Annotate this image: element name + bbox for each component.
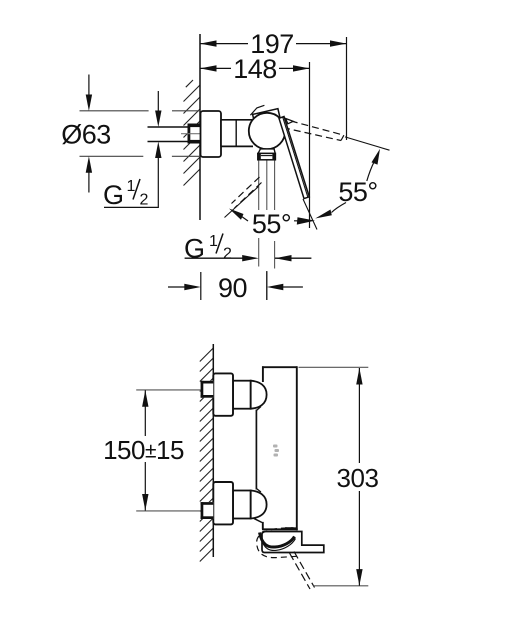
angle 55 upper label [315, 149, 380, 219]
svg-text:G: G [184, 234, 205, 264]
dimension 197 [200, 29, 347, 140]
dashed hose lines [290, 553, 311, 589]
svg-text:2: 2 [140, 192, 149, 209]
cap corner tick [250, 105, 264, 115]
svg-text:2: 2 [223, 246, 232, 263]
top nipple (side view) [201, 381, 214, 398]
dashed holder outline [257, 528, 297, 558]
top escutcheon (side view) [213, 373, 233, 415]
dimension 303 [333, 368, 383, 586]
wall hatching (top view) [184, 80, 201, 186]
body (side view) [256, 366, 297, 530]
wall hatching (side view) [200, 348, 214, 562]
dashed-left centerline [225, 187, 259, 218]
bottom nipple (side view) [201, 502, 214, 519]
dimension 150+-15 extension lines [136, 389, 209, 391]
svg-text:55°: 55° [338, 177, 377, 207]
solid lever centerline extension [303, 199, 317, 230]
svg-text:Ø63: Ø63 [61, 120, 111, 150]
svg-text:150±15: 150±15 [103, 435, 184, 465]
svg-text:90: 90 [218, 273, 247, 303]
dashed lever centerline extension (right) [345, 137, 390, 150]
G1/2 label + dimension (bottom, outlet) [184, 233, 311, 264]
lever head wedge [286, 119, 294, 124]
threaded nipple (top view) [188, 124, 201, 144]
escutcheon (top view) [201, 111, 222, 157]
pipe centerline through nipple [181, 133, 200, 135]
lever (top view) [279, 117, 309, 199]
svg-text:G: G [103, 180, 124, 210]
wall line (top view) [199, 34, 201, 220]
dimension 303 extension lines [299, 366, 369, 368]
lever cap square (rotated, top view) [253, 109, 284, 140]
bottom escutcheon (side view) [213, 482, 233, 524]
outlet extension lines [259, 161, 275, 301]
dimension 148 [200, 54, 310, 228]
dashed lever lowered-left (top view) [232, 177, 262, 208]
GROHE mark [273, 445, 279, 457]
dashed lever raised (top view) [280, 118, 344, 140]
supply pipe (top view) [148, 126, 189, 128]
svg-text:55°: 55° [252, 209, 291, 239]
top union dome [251, 381, 267, 409]
outlet block (top view) [258, 153, 276, 159]
dimension D63 arrows [86, 95, 92, 112]
valve body (top view) [221, 120, 253, 147]
svg-text:1: 1 [209, 233, 218, 250]
dimension 150+-15 [100, 390, 188, 510]
svg-text:148: 148 [233, 54, 277, 84]
svg-text:1: 1 [127, 178, 136, 195]
bottom union dome [251, 491, 267, 519]
shower holder hook [260, 533, 295, 548]
spout assembly (side view) [262, 532, 324, 553]
bottom chamfer [253, 518, 262, 523]
wall line (side view) [212, 344, 214, 557]
dimension D63 extension lines [80, 111, 201, 157]
dimension 90 [168, 271, 303, 303]
G1/2 pipe dimension arrows (left) [155, 111, 161, 128]
cartridge circle (top view) [249, 113, 285, 149]
svg-text:303: 303 [337, 463, 379, 493]
bottom union nut (side view) [233, 491, 251, 519]
body/spout separation line [285, 527, 294, 529]
G1/2 label (left) with leader [104, 158, 158, 208]
angle 55 lower label [229, 209, 315, 240]
top union nut (side view) [233, 381, 251, 409]
outlet trapezoid (top view) [258, 149, 275, 154]
